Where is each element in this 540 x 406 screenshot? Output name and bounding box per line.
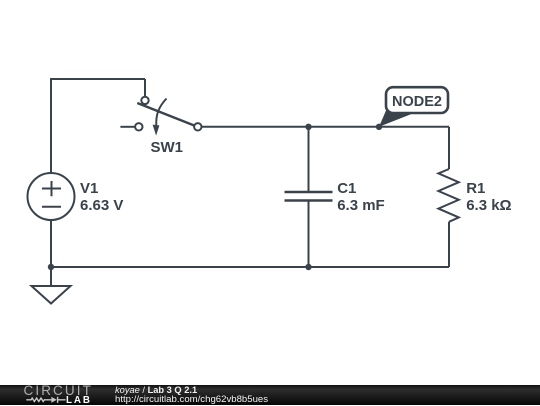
capacitor C1 bottom lead bbox=[308, 201, 310, 268]
wire top horizontal to right bbox=[202, 126, 450, 128]
CircuitLab logo LAB bbox=[66, 395, 92, 406]
NODE2 callout tail bbox=[379, 111, 414, 127]
wire switch top lead bbox=[144, 79, 146, 97]
V1 minus sign bbox=[42, 206, 61, 208]
capacitor C1 plates bbox=[285, 192, 333, 201]
wire right vertical bottom bbox=[448, 222, 450, 267]
switch SW1 arrowhead bbox=[153, 125, 160, 136]
footer title line bbox=[115, 385, 197, 395]
wire top-left horizontal bbox=[51, 78, 145, 80]
CircuitLab logo resistor-diode glyph bbox=[23, 395, 69, 405]
node junction dot at V1/ground bbox=[48, 264, 54, 270]
bottom wire bbox=[51, 266, 449, 268]
switch SW1 actuation arrow bbox=[156, 99, 166, 126]
footer bar bbox=[0, 385, 540, 406]
switch SW1 top terminal bbox=[141, 97, 148, 104]
wire V1 bottom lead bbox=[50, 220, 52, 267]
voltage source V1 body bbox=[28, 173, 75, 220]
label SW1 bbox=[151, 139, 184, 157]
node junction dot cap top bbox=[305, 124, 311, 130]
switch SW1 left stub wire bbox=[120, 126, 134, 128]
ground stub bbox=[50, 267, 52, 286]
footer url line bbox=[115, 394, 268, 405]
label R1 value bbox=[466, 180, 511, 215]
wire left vertical bbox=[50, 78, 52, 173]
resistor R1 zigzag bbox=[438, 169, 458, 222]
node junction dot cap bottom bbox=[305, 264, 311, 270]
switch SW1 blade bbox=[137, 103, 194, 126]
CircuitLab logo wordmark bbox=[24, 383, 93, 398]
svg-text:NODE2: NODE2 bbox=[392, 94, 442, 110]
wire right vertical top bbox=[448, 127, 450, 169]
ground symbol bbox=[32, 286, 71, 304]
label V1 value bbox=[80, 180, 123, 215]
node NODE2 junction dot bbox=[376, 124, 382, 130]
switch SW1 right terminal bbox=[194, 123, 201, 130]
capacitor C1 top lead bbox=[308, 127, 310, 192]
label C1 value bbox=[337, 180, 385, 215]
switch SW1 left terminal bbox=[135, 123, 142, 130]
NODE2 callout box bbox=[386, 87, 448, 113]
V1 plus sign bbox=[42, 181, 61, 196]
